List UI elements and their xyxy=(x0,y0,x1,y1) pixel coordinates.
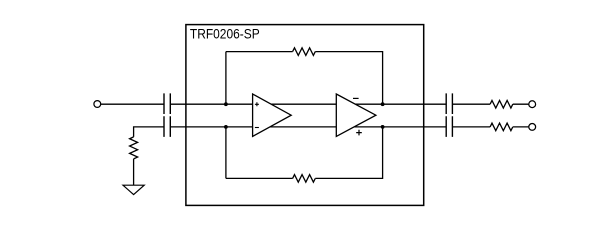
resistor R4 (top output) xyxy=(490,100,513,108)
output terminal bottom circle xyxy=(529,124,536,131)
wire input to C1 xyxy=(101,103,164,105)
wire feedback bottom horizontal xyxy=(226,177,293,179)
U1 plus label xyxy=(255,102,259,106)
wire bottom rail xyxy=(170,126,446,128)
svg-text:TRF0206-SP: TRF0206-SP xyxy=(190,27,260,42)
resistor R5 (bottom output) xyxy=(490,123,513,131)
capacitor C4 (bottom output) xyxy=(446,116,452,137)
wire R1 to ground xyxy=(133,159,135,185)
U1 minus label xyxy=(255,127,259,129)
wire feedback bottom left vertical xyxy=(225,127,227,178)
wire R5 to bottom output terminal xyxy=(513,126,529,128)
wire C3 to R4 xyxy=(452,103,490,105)
resistor R3 (bottom feedback) xyxy=(293,175,316,183)
output terminal top circle xyxy=(529,101,536,108)
IC boundary box TRF0206-SP xyxy=(186,25,424,206)
wire feedback top right xyxy=(315,52,382,105)
wire feedback top horizontal xyxy=(226,51,293,53)
input terminal circle xyxy=(94,101,101,108)
capacitor C1 (top input) xyxy=(164,93,170,114)
node bottom-left junction xyxy=(224,125,228,129)
capacitor C3 (top output) xyxy=(446,93,452,114)
capacitor C2 (bottom input) xyxy=(164,116,170,137)
wire feedback bottom right xyxy=(315,127,382,178)
wire bottom-left branch xyxy=(134,127,164,137)
node top-right junction xyxy=(381,102,385,106)
resistor R2 (top feedback) xyxy=(293,48,316,56)
wire R4 to top output terminal xyxy=(513,103,529,105)
U2 plus label xyxy=(356,130,362,136)
node bottom-right junction xyxy=(381,125,385,129)
wire C4 to R5 xyxy=(452,126,490,128)
op-amp U1 (input stage) xyxy=(253,94,292,136)
wire top rail xyxy=(170,103,446,105)
node top-left junction xyxy=(224,102,228,106)
ground xyxy=(123,185,144,194)
resistor R1 (shunt to ground) xyxy=(130,137,138,159)
U2 minus label xyxy=(353,97,359,99)
wire feedback top left vertical xyxy=(225,52,227,105)
op-amp U2 (output stage) xyxy=(336,94,376,136)
